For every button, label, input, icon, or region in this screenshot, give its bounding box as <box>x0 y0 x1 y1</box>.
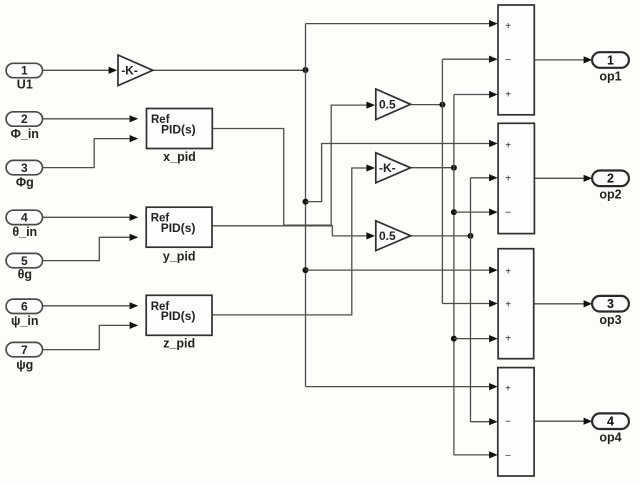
wire y_pid output to gain 0.5b <box>212 226 367 236</box>
svg-text:−: − <box>505 417 511 428</box>
sum block sum1 <box>498 5 534 115</box>
wire sum2 output to op2 <box>534 177 584 179</box>
node F junction dot <box>451 209 457 215</box>
svg-text:5: 5 <box>21 254 28 268</box>
wire port5 to y_pid input 2 <box>43 237 130 260</box>
svg-text:−: − <box>505 208 511 219</box>
svg-text:ψg: ψg <box>16 358 33 372</box>
wire gain 0.5b output to node H <box>411 235 471 237</box>
sum block sum3 <box>498 249 534 359</box>
wire gain K1 output to node A <box>153 69 306 71</box>
output port 4 (op4) <box>592 413 629 444</box>
svg-text:PID(s): PID(s) <box>161 309 196 323</box>
svg-text:PID(s): PID(s) <box>161 122 196 136</box>
wire U1 branch to sum4 input 1 <box>306 386 490 388</box>
svg-text:+: + <box>505 21 511 32</box>
svg-text:4: 4 <box>21 211 28 225</box>
svg-text:+: + <box>505 174 511 185</box>
wire U1 branch to sum3 input 1 <box>306 269 490 271</box>
PID controller block x_pid <box>147 109 213 164</box>
svg-text:ψ_in: ψ_in <box>11 314 38 328</box>
svg-text:2: 2 <box>21 112 28 126</box>
PID controller block y_pid <box>146 207 212 263</box>
wire VA to sum3 input 2 <box>442 303 489 305</box>
node D junction dot <box>439 102 445 108</box>
svg-text:2: 2 <box>607 172 614 186</box>
wire port3 to x_pid input 2 <box>43 139 130 168</box>
svg-text:1: 1 <box>607 53 614 67</box>
wire port6 to z_pid Ref input <box>43 305 130 307</box>
svg-text:1: 1 <box>21 64 28 78</box>
wire VA to sum1 input 2 <box>442 58 489 60</box>
node G junction dot <box>451 336 457 342</box>
wire vertical trunk VB <box>453 95 455 455</box>
svg-text:op1: op1 <box>599 69 621 83</box>
wire sum3 output to op3 <box>534 303 584 305</box>
wire vertical trunk VA <box>441 59 443 303</box>
svg-text:θ_in: θ_in <box>12 225 37 239</box>
wire vertical trunk VC <box>470 178 472 422</box>
wire port2 to x_pid Ref input <box>43 118 130 120</box>
wire z_pid output to gain K2 <box>212 168 366 315</box>
svg-text:op3: op3 <box>599 313 621 327</box>
svg-text:+: + <box>505 90 511 101</box>
svg-text:4: 4 <box>607 415 614 429</box>
svg-text:0.5: 0.5 <box>379 98 396 112</box>
node C junction dot <box>303 267 309 273</box>
svg-text:3: 3 <box>607 297 614 311</box>
svg-text:op4: op4 <box>599 431 621 445</box>
gain block K2 mid (-K-) <box>376 153 411 183</box>
svg-text:+: + <box>505 140 511 151</box>
input port 5 (theta_g) <box>6 253 42 281</box>
wire port7 to z_pid input 2 <box>43 325 130 349</box>
wire VC to sum2 input 2 <box>471 177 490 179</box>
svg-text:+: + <box>505 333 511 344</box>
svg-text:PID(s): PID(s) <box>161 221 196 235</box>
svg-text:Φg: Φg <box>16 176 34 190</box>
svg-text:-K-: -K- <box>121 64 138 78</box>
input port 3 (Phi_g) <box>6 160 42 189</box>
svg-text:op2: op2 <box>599 188 621 202</box>
wire VB to sum2 input 3 <box>454 211 490 213</box>
wire U1 vertical trunk <box>305 24 307 387</box>
input port 7 (psi_g) <box>6 342 42 372</box>
svg-text:U1: U1 <box>17 78 33 92</box>
sum block sum4 <box>498 368 534 476</box>
sum block sum2 <box>498 123 534 233</box>
node H junction dot <box>468 233 474 239</box>
wire gain 0.5a output to node D <box>411 104 443 106</box>
wire U1 to sum1 input 1 <box>306 23 490 25</box>
node B junction dot <box>303 199 309 205</box>
input port 4 (theta_in) <box>6 210 42 239</box>
svg-text:θg: θg <box>18 268 32 282</box>
input port 2 (Phi_in) <box>6 112 42 141</box>
wire VB to sum4 input 3 <box>454 454 490 456</box>
input port 1 (U1) <box>6 63 42 91</box>
svg-text:−: − <box>505 55 511 66</box>
svg-text:z_pid: z_pid <box>163 337 195 351</box>
wire U1 port1 to gain K1 <box>43 69 110 71</box>
wire VB to sum1 input 3 <box>454 94 490 96</box>
svg-text:0.5: 0.5 <box>379 229 396 243</box>
wire VB to sum3 input 3 <box>454 338 490 340</box>
wire U1 branch to sum2 input 1 <box>306 144 490 202</box>
svg-text:6: 6 <box>21 300 28 314</box>
svg-text:-K-: -K- <box>379 161 396 175</box>
svg-text:y_pid: y_pid <box>163 250 196 264</box>
wire VC to sum4 input 2 <box>471 421 490 423</box>
node A junction dot <box>303 67 309 73</box>
wire port4 to y_pid Ref input <box>43 216 130 218</box>
output port 3 (op3) <box>592 296 629 327</box>
output port 1 (op1) <box>592 52 629 83</box>
svg-text:+: + <box>505 267 511 278</box>
svg-text:−: − <box>505 451 511 462</box>
svg-text:x_pid: x_pid <box>163 150 196 164</box>
gain block K1 top (-K-) <box>118 55 153 86</box>
svg-text:+: + <box>505 299 511 310</box>
svg-text:Φ_in: Φ_in <box>11 127 39 141</box>
input port 6 (psi_in) <box>6 299 42 328</box>
output port 2 (op2) <box>592 171 629 202</box>
PID controller block z_pid <box>146 295 212 350</box>
wire sum1 output to op1 <box>534 59 584 61</box>
gain block G05a (0.5) <box>376 89 411 120</box>
svg-text:7: 7 <box>21 343 28 357</box>
wire x_pid output to gain 0.5a <box>212 105 366 225</box>
svg-text:3: 3 <box>21 161 28 175</box>
gain block G05b (0.5) <box>376 221 411 251</box>
wire sum4 output to op4 <box>534 420 584 422</box>
node E junction dot <box>451 165 457 171</box>
svg-text:+: + <box>505 384 511 395</box>
wire gain K2 output to node E <box>411 167 454 169</box>
